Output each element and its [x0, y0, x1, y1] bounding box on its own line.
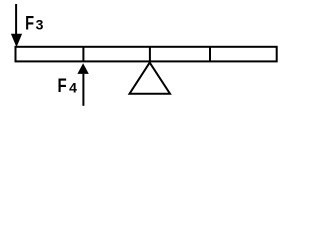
beam (lever bar)	[16, 47, 277, 62]
force arrow F4 head	[77, 63, 88, 74]
force arrow F3 shaft (downward)	[15, 4, 17, 35]
svg-text:4: 4	[69, 79, 77, 95]
svg-text:F: F	[25, 11, 34, 34]
fulcrum triangle	[130, 63, 171, 94]
beam divider 3	[209, 47, 211, 62]
svg-text:3: 3	[36, 16, 44, 32]
svg-text:F: F	[58, 74, 67, 96]
beam divider 2	[149, 47, 151, 62]
force arrow F4 shaft (upward)	[82, 74, 84, 106]
force arrow F3 head	[11, 34, 22, 48]
beam divider 1	[82, 47, 84, 62]
